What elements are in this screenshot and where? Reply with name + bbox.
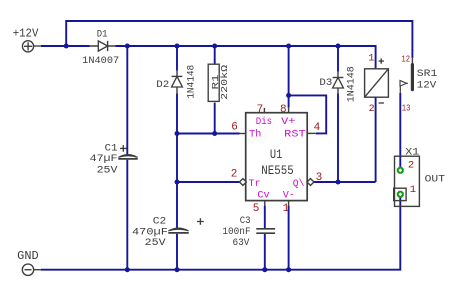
wire C2 bottom xyxy=(176,234,178,270)
svg-text:C2: C2 xyxy=(153,216,167,227)
svg-text:U1: U1 xyxy=(270,148,283,162)
svg-text:2: 2 xyxy=(408,159,414,171)
relay coil SR1 12V xyxy=(365,53,438,115)
svg-text:220kΩ: 220kΩ xyxy=(219,65,230,100)
svg-text:63V: 63V xyxy=(233,238,250,249)
diode D2 1N4148 xyxy=(156,65,197,99)
junction D2 branch on rail xyxy=(175,44,180,49)
wire Th net to Tr net vertical xyxy=(176,134,178,183)
wire Tr net xyxy=(177,181,239,183)
svg-text:RST: RST xyxy=(284,129,305,140)
wire pin 1 V- to ground rail xyxy=(288,206,290,270)
wire main +12V rail to relay coil pin 1 xyxy=(115,46,375,69)
pin 7 stub xyxy=(263,108,265,113)
svg-text:5: 5 xyxy=(253,203,260,215)
wire R1 top xyxy=(214,46,216,64)
junction R1 on Th net xyxy=(212,131,217,136)
pin 4 stub xyxy=(307,132,316,134)
junction D2 on Th net xyxy=(175,131,180,136)
svg-text:Q\: Q\ xyxy=(293,178,305,190)
junction V- on ground rail xyxy=(286,267,291,272)
wire relay contact to X1 pin 2 xyxy=(399,93,401,167)
junction D3 on Q net xyxy=(336,180,341,185)
wire top rail from +12V node to relay contact pin 12 xyxy=(66,21,412,58)
junction C1 on ground rail xyxy=(125,267,130,272)
connector X1 xyxy=(394,146,445,206)
wire R1 bottom to Th net xyxy=(214,103,216,134)
capacitor C1 47uF 25V xyxy=(90,143,138,176)
svg-text:Th: Th xyxy=(249,128,261,140)
svg-text:Cv: Cv xyxy=(257,190,269,201)
GND terminal xyxy=(22,264,41,275)
wire D3 top xyxy=(337,46,339,72)
X1 pin 1 green pad xyxy=(397,191,404,198)
wire Th net xyxy=(177,133,240,135)
capacitor C3 100nF 63V xyxy=(222,216,275,249)
wire C1 top xyxy=(126,46,128,154)
diode D1 1N4007 xyxy=(82,30,119,67)
junction Tr net xyxy=(175,180,180,185)
wire D2 top xyxy=(176,46,178,71)
wire relay coil pin 2 down to Q net xyxy=(375,97,377,182)
wire ground rail GND to X1 pin 1 xyxy=(41,197,400,270)
svg-text:D2: D2 xyxy=(156,80,169,91)
svg-text:GND: GND xyxy=(17,250,39,263)
wire pin 5 to C3 xyxy=(264,206,266,229)
svg-text:7: 7 xyxy=(257,104,264,116)
wire Q net pin 3 to relay coil pin 2 xyxy=(314,181,376,183)
X1 pin 2 green pad xyxy=(397,167,404,174)
svg-text:NE555: NE555 xyxy=(261,164,293,178)
junction D3 branch on rail xyxy=(336,44,341,49)
junction C2 on ground rail xyxy=(175,267,180,272)
svg-text:12V: 12V xyxy=(417,80,437,92)
junction C3 on ground rail xyxy=(262,267,267,272)
svg-text:25V: 25V xyxy=(97,165,118,176)
svg-text:D3: D3 xyxy=(319,78,332,89)
svg-text:2: 2 xyxy=(369,104,375,115)
svg-text:D1: D1 xyxy=(97,30,108,41)
wire +12V terminal to D1 anode xyxy=(41,45,90,47)
svg-text:Tr: Tr xyxy=(249,179,261,190)
svg-text:1: 1 xyxy=(368,53,374,64)
svg-text:1N4148: 1N4148 xyxy=(187,65,198,99)
svg-text:25V: 25V xyxy=(145,238,166,249)
wire D2 bottom to Th net xyxy=(176,93,178,133)
svg-text:SR1: SR1 xyxy=(417,68,438,80)
svg-text:47µF: 47µF xyxy=(90,154,118,165)
svg-text:12: 12 xyxy=(401,53,410,64)
svg-text:X1: X1 xyxy=(405,146,419,158)
svg-text:8: 8 xyxy=(280,104,287,116)
svg-text:1N4148: 1N4148 xyxy=(347,66,358,102)
+12V supply terminal xyxy=(22,41,41,52)
svg-text:C1: C1 xyxy=(105,143,118,154)
coil plus mark xyxy=(379,58,384,63)
junction at D1 cathode xyxy=(125,44,130,49)
coil minus mark xyxy=(379,102,384,104)
wire V+ branch rail to pin 8 xyxy=(288,46,290,108)
pin 8 stub xyxy=(288,108,290,113)
svg-text:+12V: +12V xyxy=(13,28,39,41)
svg-text:100nF: 100nF xyxy=(222,227,250,238)
svg-text:6: 6 xyxy=(231,121,238,133)
wire RST loop xyxy=(289,95,327,133)
resistor R1 220k xyxy=(208,64,230,101)
diode D3 1N4148 xyxy=(319,66,357,102)
junction at +12V node xyxy=(64,44,69,49)
wire D3 bottom to Q net xyxy=(337,93,339,182)
svg-text:OUT: OUT xyxy=(425,173,445,185)
svg-text:Dis: Dis xyxy=(256,116,272,128)
pin 6 stub xyxy=(240,133,246,135)
wire C2 top xyxy=(176,182,178,228)
pin 3 diamond node Q xyxy=(307,179,314,186)
pin 2 diamond node Tr xyxy=(239,179,246,186)
svg-text:1N4007: 1N4007 xyxy=(82,56,119,67)
pin 5 stub xyxy=(264,201,266,206)
capacitor C2 470uF 25V xyxy=(132,216,204,249)
wire C1 bottom xyxy=(126,160,128,270)
junction V+ branch on rail xyxy=(286,44,291,49)
relay contact SR1 xyxy=(400,53,412,113)
pin 1 stub xyxy=(288,201,290,206)
svg-text:2: 2 xyxy=(231,169,238,181)
op-amp timer IC U1 NE555 xyxy=(231,104,323,215)
svg-text:13: 13 xyxy=(402,102,411,113)
svg-text:1: 1 xyxy=(410,184,416,196)
svg-text:4: 4 xyxy=(314,122,321,134)
wire C3 bottom xyxy=(264,234,266,270)
junction R1 branch on rail xyxy=(212,44,217,49)
svg-text:C3: C3 xyxy=(240,216,251,227)
svg-text:V+: V+ xyxy=(281,117,295,128)
junction V+ RST loop xyxy=(286,93,291,98)
svg-text:V-: V- xyxy=(283,190,295,201)
